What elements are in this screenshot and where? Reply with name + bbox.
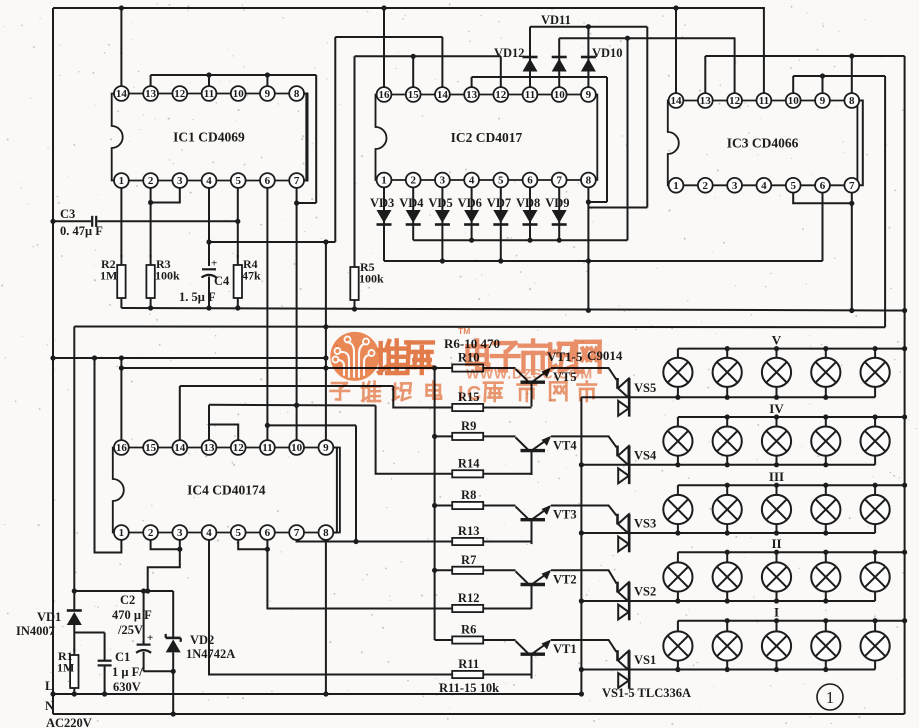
transistor VT2 C9014 bbox=[516, 570, 552, 609]
wire IC4 pin6 drop to R12 bbox=[267, 540, 452, 609]
svg-text:VD9: VD9 bbox=[545, 196, 569, 210]
transistor VT3 C9014 bbox=[516, 505, 552, 544]
triac VS2 TLC336A bbox=[618, 582, 630, 621]
IC body IC3 bbox=[668, 101, 858, 186]
wire VD3 column bbox=[383, 187, 385, 261]
svg-text:100k: 100k bbox=[359, 272, 384, 286]
diode VD6 bbox=[464, 210, 479, 225]
junction bus R9 bbox=[432, 434, 437, 439]
wire lamp stub I3 bbox=[776, 621, 778, 670]
junction lineB pin16 riser bbox=[119, 365, 124, 370]
IC4 pin 13 bbox=[202, 440, 217, 455]
wire C3 line bbox=[53, 220, 91, 222]
lamp row V bottom bus bbox=[581, 396, 875, 398]
svg-text:12: 12 bbox=[233, 442, 245, 454]
diode VD9 bbox=[552, 210, 567, 225]
svg-text:10: 10 bbox=[233, 88, 245, 100]
svg-text:VT3: VT3 bbox=[553, 508, 577, 522]
resistor R2 1M bbox=[117, 255, 125, 308]
svg-text:IC4 CD40174: IC4 CD40174 bbox=[187, 483, 266, 498]
IC2 pin 16 bbox=[377, 87, 392, 102]
wire IC1 pin6 to IC4 pin11 column bbox=[266, 188, 268, 441]
junction II5 top bbox=[873, 550, 878, 555]
wire R9 lead left bbox=[435, 435, 453, 437]
svg-text:3: 3 bbox=[440, 175, 446, 187]
wire VD1 R1 column bbox=[73, 591, 75, 611]
lamp bbox=[762, 562, 791, 591]
lamp bbox=[713, 562, 742, 591]
junction lineA pin16 riser bbox=[119, 355, 124, 360]
zener VD2 1N4742A bbox=[166, 634, 181, 714]
svg-text:8: 8 bbox=[323, 527, 329, 539]
diode VD12 bbox=[523, 57, 538, 72]
svg-text:1: 1 bbox=[119, 175, 125, 187]
resistor R10 bbox=[452, 364, 483, 371]
svg-text:15: 15 bbox=[408, 89, 420, 101]
wire x885 drop bbox=[884, 76, 886, 327]
wire IC2 pin14 riser bbox=[441, 37, 443, 88]
diode VD10 bbox=[581, 57, 596, 72]
svg-text:VD7: VD7 bbox=[487, 196, 511, 210]
wire lamp stub I4 bbox=[825, 621, 827, 670]
junction y425 on pin11 column bbox=[265, 423, 270, 428]
junction R4 bus bbox=[235, 305, 240, 310]
wire triac common column bbox=[580, 397, 582, 694]
wire R13 branch line y425 bbox=[267, 424, 356, 426]
junction V2 bottom bbox=[725, 395, 730, 400]
junction C3 left border bbox=[50, 219, 55, 224]
junction III2 top bbox=[725, 483, 730, 488]
lamp row V top bus bbox=[678, 348, 905, 350]
wire lamp stub IV3 bbox=[776, 417, 778, 465]
junction II2 bottom bbox=[725, 598, 730, 603]
IC4 pin 14 bbox=[172, 440, 187, 455]
wire C2 riser bbox=[143, 591, 145, 645]
junction I2 top bbox=[725, 618, 730, 623]
wire R11 lead right bbox=[483, 674, 531, 676]
svg-text:L: L bbox=[45, 679, 53, 693]
svg-text:8: 8 bbox=[849, 95, 855, 107]
IC1 pin 5 bbox=[231, 173, 246, 188]
svg-text:1: 1 bbox=[826, 688, 835, 707]
IC4 pin 16 bbox=[114, 440, 129, 455]
svg-text:1M: 1M bbox=[100, 269, 117, 283]
lamp row IV bottom bus bbox=[581, 464, 875, 466]
IC3 pin 10 bbox=[786, 93, 801, 108]
wire IC3 pin5 drop bbox=[793, 192, 852, 203]
IC1 pin 10 bbox=[231, 86, 246, 101]
wire R15 staircase bbox=[393, 386, 452, 408]
wire ground line y326 bbox=[74, 326, 885, 329]
svg-text:7: 7 bbox=[556, 175, 562, 187]
IC1 pin 1 bbox=[114, 173, 129, 188]
wire x607 to pin8 bbox=[588, 201, 607, 203]
IC1 pin 2 bbox=[143, 173, 158, 188]
svg-text:II: II bbox=[771, 536, 781, 551]
wire IC4 pin2 jog bbox=[151, 540, 180, 550]
IC2 pin 8 bbox=[581, 173, 596, 188]
svg-text:IC2 CD4017: IC2 CD4017 bbox=[451, 130, 523, 145]
junction V3 bottom bbox=[774, 395, 779, 400]
wire C2 bottom link bbox=[144, 670, 174, 672]
junction rail C2 bbox=[141, 588, 146, 593]
wire IC2 pin8 drop bbox=[587, 187, 589, 311]
wire lamp stub II4 bbox=[825, 552, 827, 601]
junction III1 bottom bbox=[675, 530, 680, 535]
IC4 pin 12 bbox=[231, 440, 246, 455]
junction III4 bottom bbox=[823, 530, 828, 535]
svg-text:16: 16 bbox=[379, 89, 391, 101]
resistor R14 bbox=[452, 470, 483, 477]
svg-text:1. 5μ F: 1. 5μ F bbox=[179, 290, 216, 304]
svg-text:VS4: VS4 bbox=[634, 448, 657, 462]
svg-text:47k: 47k bbox=[242, 269, 261, 283]
wire IC3 pin12 riser bbox=[734, 38, 736, 93]
wire lamp stub V3 bbox=[776, 349, 778, 398]
wire IC4 pin16 riser bbox=[120, 358, 122, 441]
wire lamp stub V1 bbox=[677, 349, 679, 398]
IC3 pin 5 bbox=[786, 178, 801, 193]
wire lamp stub V5 bbox=[874, 349, 876, 398]
resistor R12 bbox=[452, 605, 483, 612]
junction pin2 pin3 bbox=[148, 200, 153, 205]
lamp row II top bus bbox=[678, 551, 905, 553]
junction top rail pin16 IC2 bbox=[381, 5, 386, 10]
wire lamp stub V2 bbox=[726, 349, 728, 398]
svg-text:WWW.DZSC.COM: WWW.DZSC.COM bbox=[466, 366, 593, 382]
junction y242 pin4 column bbox=[206, 239, 211, 244]
svg-text:R11-15 10k: R11-15 10k bbox=[439, 681, 499, 695]
wire IC4 pin7 drop to R13 bbox=[297, 540, 453, 542]
junction IV1 bottom bbox=[675, 462, 680, 467]
wire VD1 to R1 bbox=[73, 625, 75, 651]
junction top rail pin14 bbox=[119, 5, 124, 10]
junction I3 bottom bbox=[774, 667, 779, 672]
junction III3 bottom bbox=[774, 530, 779, 535]
lamp bbox=[762, 358, 791, 387]
junction IC3 pin8 bus56 bbox=[849, 53, 854, 58]
lamp bbox=[663, 358, 692, 387]
junction III3 top bbox=[774, 483, 779, 488]
junction IC4 pin8 L rail bbox=[323, 691, 328, 696]
wire IC3 pin11 riser bbox=[763, 8, 765, 94]
wire R14 feed line y405 bbox=[209, 404, 376, 407]
svg-text:9: 9 bbox=[323, 442, 329, 454]
junction II1 bottom bbox=[675, 598, 680, 603]
junction IC2 pin8 bus261 bbox=[586, 258, 591, 263]
junction II3 top bbox=[774, 550, 779, 555]
svg-text:+: + bbox=[211, 258, 217, 270]
svg-text:VD5: VD5 bbox=[428, 196, 452, 210]
wire left border bbox=[52, 8, 54, 714]
junction row III right bbox=[902, 483, 907, 488]
svg-text:2: 2 bbox=[703, 180, 709, 192]
svg-text:R6: R6 bbox=[461, 623, 476, 637]
junction I5 top bbox=[873, 618, 878, 623]
junction C1 L rail bbox=[102, 691, 107, 696]
wire R13 lead right bbox=[483, 541, 531, 543]
IC3 pin 11 bbox=[757, 93, 772, 108]
wire lamp stub I1 bbox=[677, 621, 679, 670]
wire VD4 column bbox=[412, 187, 414, 240]
svg-text:6: 6 bbox=[527, 175, 533, 187]
svg-text:5: 5 bbox=[235, 175, 241, 187]
IC2 pin 2 bbox=[406, 173, 421, 188]
wire lamp stub I5 bbox=[874, 621, 876, 670]
svg-text:16: 16 bbox=[116, 442, 128, 454]
resistor R9 bbox=[452, 433, 483, 440]
wire lamp stub IV5 bbox=[874, 417, 876, 465]
wire R6 lead left bbox=[435, 639, 453, 641]
wire VD11 riser bbox=[558, 38, 560, 87]
svg-text:VD11: VD11 bbox=[541, 13, 571, 27]
wire L rail bbox=[53, 693, 581, 695]
IC2 pin 15 bbox=[406, 87, 421, 102]
svg-text:R14: R14 bbox=[458, 456, 480, 470]
wire R10 lead right bbox=[483, 367, 515, 369]
svg-text:VD12: VD12 bbox=[494, 46, 525, 60]
junction row I right bbox=[902, 618, 907, 623]
wire IC3 pin8 riser bbox=[851, 56, 853, 94]
svg-text:11: 11 bbox=[759, 95, 769, 107]
lamp bbox=[713, 358, 742, 387]
lamp bbox=[713, 631, 742, 660]
junction V2 top bbox=[725, 346, 730, 351]
IC2 pin 3 bbox=[435, 173, 450, 188]
svg-text:R11: R11 bbox=[458, 657, 479, 671]
junction II4 bottom bbox=[823, 598, 828, 603]
IC4 pin 5 bbox=[231, 525, 246, 540]
lamp row I top bus bbox=[678, 620, 905, 622]
IC1 pin 12 bbox=[172, 86, 187, 101]
resistor R4 47k bbox=[234, 255, 242, 308]
wire IC2 pin16 to top rail bbox=[383, 8, 385, 88]
junction V4 top bbox=[823, 346, 828, 351]
wire VT2 emitter to VS2 bbox=[551, 570, 617, 583]
junction lineB V9 bbox=[323, 365, 328, 370]
junction lineA border bbox=[50, 355, 55, 360]
IC4 pin 10 bbox=[289, 440, 304, 455]
svg-text:3: 3 bbox=[177, 527, 183, 539]
svg-text:V: V bbox=[772, 333, 782, 348]
diode VD4 bbox=[406, 210, 421, 225]
wire IC4 pin13 riser bbox=[208, 405, 210, 441]
wire VT1 emitter to VS1 bbox=[551, 640, 617, 652]
resistor R8 bbox=[452, 502, 483, 509]
svg-text:1M: 1M bbox=[57, 661, 74, 675]
svg-text:III: III bbox=[769, 469, 784, 484]
IC3 pin 14 bbox=[669, 93, 684, 108]
junction R1 L rail bbox=[72, 691, 77, 696]
svg-text:IC1 CD4069: IC1 CD4069 bbox=[173, 130, 245, 145]
IC3 pin 8 bbox=[844, 93, 859, 108]
junction triac column L rail bbox=[579, 691, 584, 696]
svg-text:VD10: VD10 bbox=[592, 46, 623, 60]
capacitor C4 bbox=[202, 269, 217, 308]
wire R6 lead right bbox=[483, 639, 515, 641]
wire diode bus y261 bbox=[384, 260, 823, 262]
svg-text:R7: R7 bbox=[461, 553, 476, 567]
IC4 pin 8 bbox=[319, 525, 334, 540]
IC1 pin 11 bbox=[202, 86, 217, 101]
svg-text:2: 2 bbox=[148, 175, 154, 187]
wire R15 feed line y386 bbox=[180, 385, 393, 387]
IC2 pin 10 bbox=[552, 87, 567, 102]
transistor VT4 C9014 bbox=[516, 436, 552, 475]
junction IC2 pin8 upper bbox=[586, 199, 591, 204]
junction I4 top bbox=[823, 618, 828, 623]
wire IC3 pin6 drop bbox=[822, 192, 824, 261]
wire R8 lead right bbox=[483, 505, 515, 507]
wire R base bus x434 bbox=[434, 368, 436, 640]
junction I3 top bbox=[774, 618, 779, 623]
IC1 pin 3 bbox=[172, 173, 187, 188]
junction I1 bottom bbox=[675, 667, 680, 672]
IC2 pin 7 bbox=[552, 173, 567, 188]
svg-text:6: 6 bbox=[265, 527, 271, 539]
wire supply rail y591 bbox=[74, 590, 173, 592]
IC1 pin 9 bbox=[260, 86, 275, 101]
wire line B y368 VDD feed bbox=[121, 367, 452, 369]
wire lamp stub IV4 bbox=[825, 417, 827, 465]
junction II4 top bbox=[823, 550, 828, 555]
IC4 pin 2 bbox=[143, 525, 158, 540]
junction V5 top bbox=[873, 346, 878, 351]
wire lamp stub II2 bbox=[726, 552, 728, 601]
svg-text:7: 7 bbox=[849, 180, 855, 192]
wire IC3 pin13 bus y56 bbox=[705, 55, 904, 57]
lamp bbox=[663, 495, 692, 524]
svg-text:N: N bbox=[45, 699, 54, 713]
IC1 pin 6 bbox=[260, 173, 275, 188]
junction VD2 N rail bbox=[171, 711, 176, 716]
wire R7 lead right bbox=[483, 569, 515, 571]
wire IC2 pin15 riser bbox=[412, 56, 414, 87]
wire IC1 pin13 riser bbox=[150, 75, 152, 87]
wire lamp stub II1 bbox=[677, 552, 679, 601]
svg-text:5: 5 bbox=[235, 527, 241, 539]
wire IC3 pin13 riser bbox=[704, 56, 706, 94]
wire IC4 pin3 drop bbox=[148, 540, 180, 592]
junction y326 V9 bbox=[323, 324, 328, 329]
junction VD9 bus240 bbox=[557, 238, 562, 243]
IC3 pin 9 bbox=[815, 93, 830, 108]
junction II3 bottom bbox=[774, 598, 779, 603]
lamp bbox=[762, 495, 791, 524]
lamp bbox=[811, 631, 840, 660]
IC2 pin 1 bbox=[377, 173, 392, 188]
junction gate VS3 bbox=[579, 530, 584, 535]
wire R5 column upper bbox=[354, 56, 356, 259]
wire R15 lead right bbox=[483, 407, 531, 409]
svg-text:14: 14 bbox=[437, 89, 449, 101]
svg-text:IV: IV bbox=[769, 401, 784, 416]
lamp row II bottom bus bbox=[581, 600, 875, 602]
IC2 pin 12 bbox=[493, 87, 508, 102]
IC4 pin 7 bbox=[289, 525, 304, 540]
svg-text:R13: R13 bbox=[458, 524, 480, 538]
junction VD10 top bbox=[586, 24, 591, 29]
wire IC4 pin5 jog bbox=[238, 540, 267, 550]
triac VS5 TLC336A bbox=[618, 378, 630, 417]
svg-text:VS1: VS1 bbox=[634, 653, 656, 667]
wire IC4 pin12 jog bbox=[209, 407, 238, 441]
svg-text:10: 10 bbox=[788, 95, 800, 107]
wire R12 lead right bbox=[483, 608, 531, 610]
junction lineP right border bbox=[902, 308, 907, 313]
IC3 pin 3 bbox=[727, 178, 742, 193]
svg-text:2: 2 bbox=[410, 175, 416, 187]
resistor R6 bbox=[452, 636, 483, 643]
wire VD7 column bbox=[500, 187, 502, 261]
svg-text:10: 10 bbox=[554, 89, 566, 101]
svg-text:R8: R8 bbox=[461, 488, 476, 502]
wire lamp stub III3 bbox=[776, 485, 778, 533]
junction lineA x94 bbox=[92, 355, 97, 360]
junction lineB R bus bbox=[432, 365, 437, 370]
wire diode bus y240 bbox=[413, 239, 627, 241]
IC4 pin 9 bbox=[319, 440, 334, 455]
svg-text:R9: R9 bbox=[461, 419, 476, 433]
IC4 pin 6 bbox=[260, 525, 275, 540]
svg-text:VD1: VD1 bbox=[37, 610, 61, 624]
resistor R13 bbox=[452, 538, 483, 545]
triac VS1 TLC336A bbox=[618, 650, 630, 689]
lamp bbox=[861, 358, 890, 387]
svg-text:11: 11 bbox=[204, 88, 214, 100]
wire top supply rail bbox=[53, 7, 765, 9]
svg-text:VT4: VT4 bbox=[553, 438, 577, 452]
svg-text:R6-10 470: R6-10 470 bbox=[444, 336, 500, 351]
svg-text:13: 13 bbox=[145, 88, 157, 100]
wire IC3 pin10 riser bbox=[792, 76, 794, 94]
capacitor C2 electrolytic bbox=[136, 645, 151, 672]
wire VD9 column bbox=[558, 187, 560, 240]
IC4 pin 11 bbox=[260, 440, 275, 455]
wire IC3 pin10 bus y76 bbox=[793, 75, 885, 77]
svg-text:I: I bbox=[458, 383, 464, 405]
svg-text:15: 15 bbox=[145, 442, 157, 454]
IC2 pin 9 bbox=[581, 87, 596, 102]
junction L rail border bbox=[50, 691, 55, 696]
wire x335 drop bbox=[334, 37, 336, 242]
transistor VT5 C9014 bbox=[516, 368, 552, 407]
svg-text:13: 13 bbox=[204, 442, 216, 454]
junction row II right bbox=[902, 550, 907, 555]
wire VD11 bus drop to pin8 node bbox=[588, 207, 647, 209]
wire IC1 pin5 drop bbox=[237, 188, 239, 258]
junction R13 line bbox=[353, 539, 358, 544]
svg-text:11: 11 bbox=[525, 89, 535, 101]
junction IC3 pin9 bus76 bbox=[820, 73, 825, 78]
wire lamp stub III1 bbox=[677, 485, 679, 533]
junction R14 line pin10 column 2 bbox=[294, 403, 299, 408]
wire VD6 column bbox=[471, 187, 473, 240]
wire diode line y38 bbox=[559, 37, 735, 39]
lamp bbox=[663, 631, 692, 660]
wire VT3 emitter to VS3 bbox=[551, 506, 617, 516]
junction R14 line pin10 column bbox=[294, 403, 299, 408]
wire IC1 pin2 drop bbox=[150, 188, 152, 258]
lamp bbox=[713, 427, 742, 456]
triac VS4 TLC336A bbox=[618, 446, 630, 485]
wire R13 staircase drop bbox=[355, 425, 357, 541]
wire R7 lead left bbox=[435, 569, 453, 571]
IC4 pin 15 bbox=[143, 440, 158, 455]
resistor R15 bbox=[452, 404, 483, 411]
svg-text:I: I bbox=[774, 605, 779, 620]
wire x607 drop bbox=[606, 77, 608, 202]
